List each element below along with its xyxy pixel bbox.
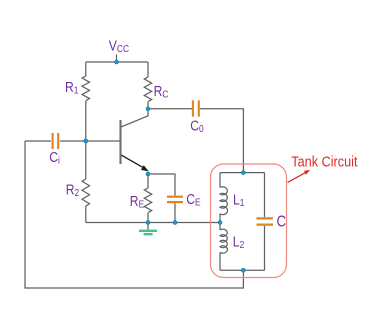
- wire tank top side: [220, 172, 265, 174]
- wire R2 top lead: [85, 141, 87, 179]
- resistor RE: [144, 188, 151, 213]
- wire bottom emitter rail: [86, 222, 220, 224]
- wire Ci left lead: [25, 140, 51, 142]
- wire tank left bottom lead: [219, 253, 221, 271]
- node Vcc: [115, 60, 119, 64]
- wire feedback loop: [25, 141, 243, 288]
- wire CE bottom lead: [174, 203, 176, 222]
- resistor R1: [82, 76, 89, 101]
- wire tank right bottom lead: [264, 226, 266, 270]
- inductor L1: [220, 187, 228, 215]
- wire R2 bottom lead: [85, 206, 87, 223]
- wire R1 bottom lead: [85, 101, 87, 141]
- wire tank left top lead: [219, 173, 221, 188]
- wire base node to transistor: [60, 140, 121, 142]
- wire C0 to tank top: [200, 109, 244, 173]
- transistor emitter arrowhead: [141, 165, 149, 171]
- node base: [84, 139, 88, 143]
- capacitor Ci: [53, 133, 59, 149]
- node dots: [84, 60, 245, 272]
- wire RE bottom lead: [147, 213, 149, 223]
- node CE junction: [173, 221, 177, 225]
- wire top rail: [86, 61, 148, 63]
- node tank bottom: [241, 268, 245, 272]
- wire tank bottom side: [220, 269, 265, 271]
- wire RC top lead: [147, 62, 149, 77]
- capacitor C: [257, 218, 274, 224]
- wire R1 top lead: [85, 62, 87, 76]
- wire collector to C0: [148, 108, 192, 110]
- transistor collector lead: [122, 109, 149, 127]
- node tank top: [241, 171, 245, 175]
- wire Vcc stub: [116, 55, 118, 63]
- capacitor C0: [193, 100, 199, 116]
- wire emitter node to RE: [147, 174, 149, 188]
- capacitor CE: [167, 197, 183, 202]
- svg-text:Tank Circuit: Tank Circuit: [291, 154, 357, 170]
- wire emitter node to CE: [148, 174, 175, 196]
- resistor RC: [144, 77, 151, 102]
- wire tank right top lead: [264, 173, 266, 218]
- inductor L2: [220, 229, 227, 253]
- wire tank left middle lead: [219, 214, 221, 231]
- wire ground stub: [147, 223, 149, 230]
- tank circuit arrow: [288, 170, 311, 183]
- wire RC bottom lead: [147, 102, 149, 109]
- transistor Q1: [121, 109, 149, 172]
- transistor base bar: [119, 120, 121, 164]
- tank circuit red box: [211, 164, 287, 278]
- ground: [139, 231, 157, 234]
- node collector: [146, 107, 150, 111]
- resistor R2: [82, 179, 89, 206]
- transistor emitter lead: [122, 155, 144, 168]
- node tank tap: [218, 221, 222, 225]
- node ground junction: [146, 221, 150, 225]
- svg-text:C: C: [277, 214, 287, 231]
- node emitter: [146, 172, 150, 176]
